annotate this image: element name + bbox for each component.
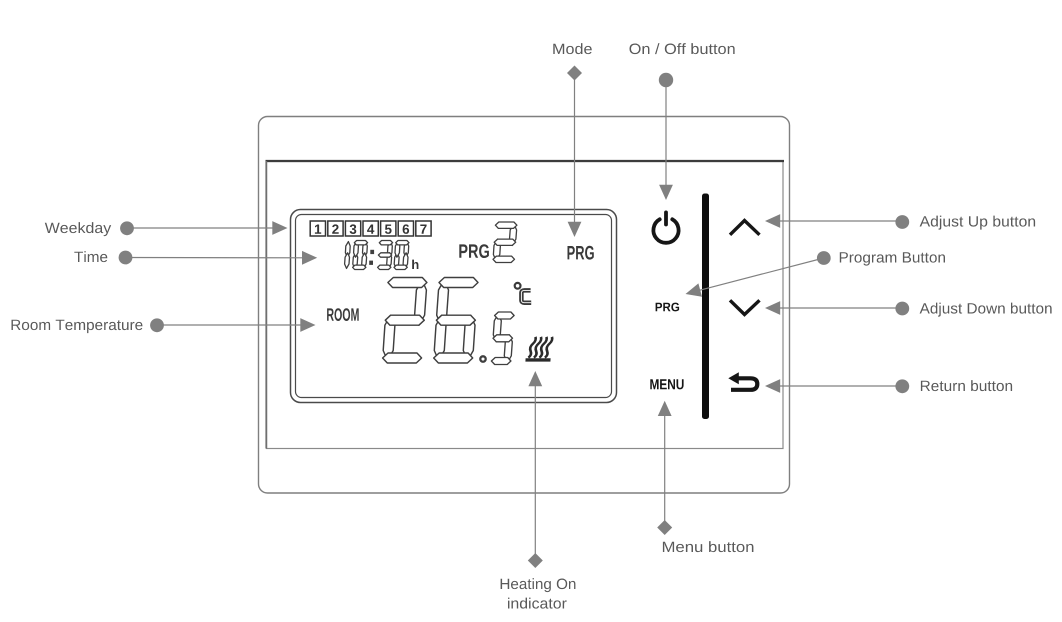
MENU button label [650,379,683,389]
adjust down button chevron [730,300,760,314]
adjust up button chevron [730,221,760,235]
callout: Mode [553,43,592,237]
PRG button label [656,303,680,312]
on/off power button icon [653,212,678,242]
degree C symbol [515,283,532,303]
callout: Menu button [657,401,753,552]
callout: Room Temperature [12,318,316,333]
time display 10:30 [345,241,409,270]
callout: Adjust Up button [765,214,1035,230]
PRG label in LCD [459,244,489,258]
callout: Return button [765,379,1012,393]
thermostat outer body [259,117,790,494]
callout: Time [74,251,317,265]
ROOM label [327,308,359,321]
LCD display bezel [291,210,617,403]
return button icon [728,372,757,390]
weekday indicator boxes 1-7 [310,221,431,236]
callout: Heating On indicator [501,371,576,609]
callout: Program Button [686,251,946,297]
callout: Adjust Down button [765,301,1052,317]
room temperature 26.5 (7-segment) [383,278,514,365]
hour unit label h [412,260,418,269]
callout: On / Off button [630,43,735,200]
program number 2 (7-segment) [493,222,517,263]
callout: Weekday [45,221,288,236]
PRG mode indicator [568,246,594,260]
thermostat inner face plate [266,161,785,449]
heating on indicator icon [525,337,552,362]
touch panel separator bar [702,194,709,420]
